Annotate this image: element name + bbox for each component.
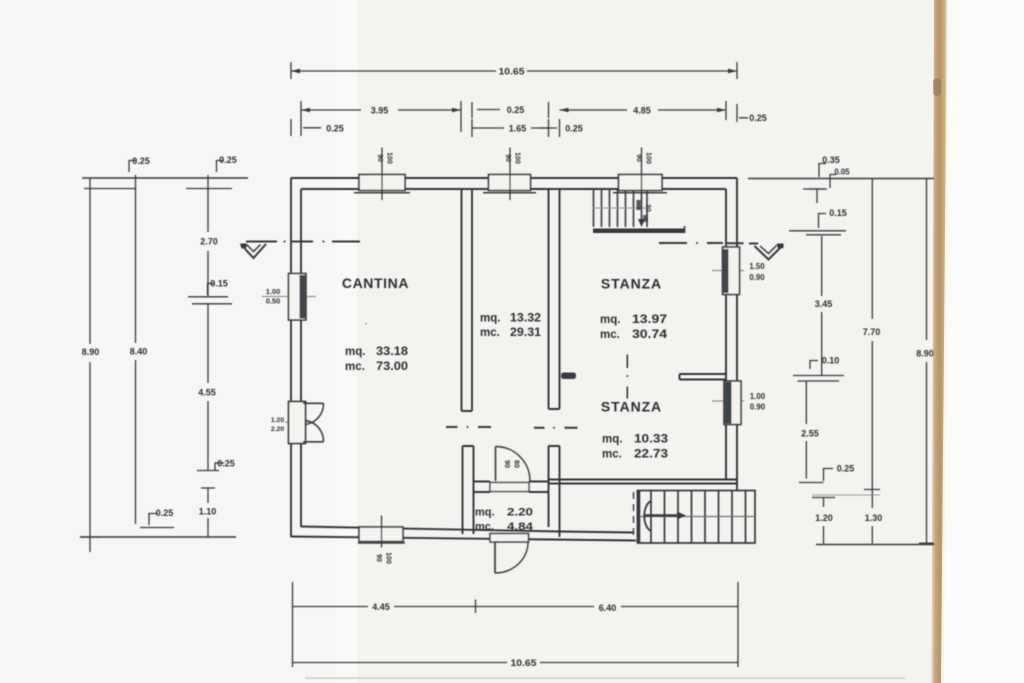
dim 2.70	[207, 189, 209, 297]
section line AA right	[659, 242, 758, 245]
hook 0.35	[819, 164, 826, 178]
dim 0.25 left leader	[291, 119, 321, 136]
ext inner bottom	[140, 514, 174, 528]
svg-text:10.65: 10.65	[511, 658, 537, 668]
window R1 (right wall)	[712, 270, 744, 272]
ticks 0.15	[188, 284, 232, 304]
partition wall W1 lower (bath left)	[463, 446, 474, 534]
svg-text:4.45: 4.45	[372, 602, 390, 612]
stair block left thick edge	[637, 491, 641, 544]
dim 0.25 mid leader	[472, 102, 500, 118]
page edge brown strip	[932, 0, 948, 683]
svg-text:13.32: 13.32	[510, 313, 541, 325]
ext line top right	[748, 178, 934, 180]
svg-text:0.25: 0.25	[217, 459, 235, 469]
paper speck	[365, 323, 367, 325]
svg-text:7.70: 7.70	[863, 327, 881, 337]
stair arrow start arc	[644, 501, 651, 531]
exterior door arc	[495, 543, 528, 574]
bath door leaf	[495, 447, 497, 482]
ext line bottom	[80, 536, 236, 538]
dim 8.90 right	[919, 179, 934, 544]
ext inner right	[803, 188, 827, 190]
svg-text:10.65: 10.65	[499, 67, 525, 77]
stair midline	[640, 516, 755, 518]
wall top outer	[291, 177, 737, 179]
svg-text:1.00: 1.00	[266, 287, 280, 296]
svg-text:1.65: 1.65	[509, 124, 527, 134]
svg-text:0.25: 0.25	[749, 113, 767, 123]
svg-text:mq.: mq.	[480, 313, 500, 325]
dim 8.90 left	[80, 178, 100, 552]
ext line bottom right	[816, 544, 934, 546]
stair treads upper	[594, 190, 648, 227]
svg-text:STANZA: STANZA	[601, 399, 662, 415]
mini tick	[809, 189, 825, 204]
stair block outline	[638, 491, 756, 544]
wall left outer	[290, 178, 292, 537]
dashed landing line	[633, 492, 635, 540]
svg-text:0.15: 0.15	[210, 279, 228, 289]
dim 8.40	[135, 189, 137, 525]
centerline between stanza	[626, 355, 628, 399]
section arrow left	[241, 244, 266, 258]
svg-text:90: 90	[504, 154, 511, 162]
svg-text:100: 100	[514, 152, 521, 164]
svg-text:0.25: 0.25	[565, 124, 583, 134]
svg-text:1.00: 1.00	[750, 392, 766, 401]
svg-text:73.00: 73.00	[376, 361, 408, 373]
svg-text:mq.: mq.	[475, 507, 495, 519]
faint scanner line at bottom	[305, 677, 905, 679]
svg-text:13.97: 13.97	[632, 314, 667, 326]
svg-text:mc.: mc.	[345, 361, 365, 373]
darker smudge on strip	[933, 78, 941, 96]
svg-text:2.55: 2.55	[801, 429, 819, 439]
svg-text:100: 100	[385, 552, 392, 564]
svg-text:29.31: 29.31	[510, 327, 542, 339]
svg-text:1.10: 1.10	[199, 507, 217, 517]
svg-text:1.30: 1.30	[865, 513, 883, 523]
svg-text:30.74: 30.74	[632, 329, 668, 341]
stair treads lower	[651, 491, 746, 544]
wall bottom inner corridor	[560, 532, 635, 533]
wall right inner	[725, 189, 727, 480]
svg-text:2.20: 2.20	[271, 426, 284, 433]
ticks top pair	[789, 231, 846, 235]
svg-text:0.05: 0.05	[834, 168, 850, 177]
svg-text:mq.: mq.	[345, 346, 365, 358]
partition wall W2 upper	[549, 189, 560, 409]
dim 7.70 / 1.30	[864, 179, 880, 544]
svg-text:mc.: mc.	[600, 329, 620, 341]
bath door wall jambs	[474, 482, 549, 493]
hook 0.25 mid	[215, 463, 224, 470]
svg-text:mc.: mc.	[480, 327, 500, 339]
stair down arrow	[641, 193, 643, 221]
svg-text:0.25: 0.25	[326, 124, 344, 134]
svg-text:0.90: 0.90	[749, 273, 765, 282]
svg-text:mq.: mq.	[602, 434, 622, 446]
svg-text:90: 90	[375, 554, 382, 562]
section line BB	[446, 426, 578, 429]
svg-text:8.90: 8.90	[916, 349, 934, 359]
dim 2.55	[799, 381, 824, 483]
svg-text:0.25: 0.25	[132, 156, 150, 166]
dim 4.55	[197, 304, 219, 471]
ticks mid pair	[793, 376, 844, 382]
exterior door leaf	[494, 543, 496, 574]
hook 0.05	[830, 175, 836, 189]
svg-text:STANZA: STANZA	[601, 276, 662, 292]
svg-text:0.10: 0.10	[822, 356, 840, 366]
bath door threshold	[490, 483, 529, 492]
wall right outer	[736, 178, 738, 490]
ext line top	[82, 177, 248, 179]
svg-text:100: 100	[645, 152, 652, 164]
dim 4.85	[560, 101, 727, 120]
svg-text:8.40: 8.40	[130, 347, 148, 357]
ext line inner top	[84, 188, 232, 190]
svg-text:2.20: 2.20	[507, 507, 533, 519]
svg-text:90: 90	[635, 154, 642, 162]
svg-text:0.25: 0.25	[507, 105, 525, 115]
svg-text:0.25: 0.25	[837, 464, 855, 474]
partition wall W1 upper	[462, 189, 473, 411]
svg-text:0.25: 0.25	[219, 155, 237, 165]
svg-text:90: 90	[376, 154, 383, 162]
svg-text:3.95: 3.95	[371, 106, 389, 116]
dim 3.95	[301, 101, 461, 132]
section arrow right	[755, 245, 784, 260]
wall bottom inner left	[301, 527, 560, 532]
hook 0.25 top-b	[129, 161, 136, 191]
dim 4.45 / 6.40	[293, 582, 739, 667]
section line AA left	[246, 241, 360, 243]
svg-text:4.55: 4.55	[198, 388, 216, 398]
stanza partition stub	[680, 374, 727, 380]
svg-text:4.84: 4.84	[507, 521, 534, 533]
partition wall W2 lower (bath right)	[549, 446, 560, 537]
svg-text:mc.: mc.	[602, 449, 622, 461]
dim 1.20	[812, 498, 835, 544]
window L1 (left wall)	[262, 296, 316, 298]
dim 0.25 mid-right leader	[541, 102, 560, 137]
dim 1.10	[201, 488, 215, 537]
stair landing edge	[593, 229, 684, 234]
svg-text:0.35: 0.35	[822, 155, 840, 165]
door frame mark right of W2	[561, 373, 576, 380]
svg-text:2.70: 2.70	[200, 237, 218, 247]
pale band at fold	[337, 0, 357, 683]
stair faint midline	[593, 207, 647, 209]
wall bottom outer	[291, 537, 636, 541]
dim 10.65 top	[291, 62, 737, 79]
landing end tick	[684, 226, 686, 233]
wall stanza bottom	[549, 480, 737, 484]
window R2 (right wall)	[712, 400, 744, 402]
svg-text:80: 80	[513, 460, 520, 468]
dim 10.65 bottom	[293, 662, 739, 664]
svg-text:0.90: 0.90	[750, 403, 766, 412]
stair direction arrow	[645, 514, 678, 516]
svg-text:4.85: 4.85	[633, 106, 651, 116]
faint line	[812, 494, 880, 496]
dim 0.25 far right leader	[737, 104, 748, 122]
window T3 (top wall)	[619, 175, 663, 191]
hook 0.25 top-c	[208, 161, 223, 191]
svg-text:0.25: 0.25	[156, 508, 174, 518]
bath door arc	[496, 447, 531, 482]
white area right of strip	[944, 0, 1024, 683]
hook 0.25 right	[824, 469, 834, 482]
window T1 (top wall)	[359, 175, 405, 191]
hook 0.10	[810, 361, 818, 370]
svg-text:3.45: 3.45	[815, 299, 833, 309]
dim 3.45	[821, 236, 823, 375]
svg-text:8.90: 8.90	[82, 347, 100, 357]
svg-text:6.40: 6.40	[599, 603, 617, 613]
svg-text:30: 30	[644, 204, 651, 212]
lighter left paper band	[0, 0, 337, 683]
svg-text:1.20: 1.20	[815, 513, 833, 523]
wall left inner	[300, 189, 302, 527]
svg-text:10.33: 10.33	[634, 434, 668, 446]
hook 0.15	[819, 214, 827, 229]
svg-text:CANTINA: CANTINA	[342, 275, 409, 291]
svg-text:1.20: 1.20	[271, 417, 284, 424]
svg-text:1.50: 1.50	[749, 262, 765, 271]
svg-text:90: 90	[503, 460, 510, 468]
wall top inner	[301, 188, 726, 190]
window T2 (top wall)	[489, 175, 531, 191]
svg-text:mq.: mq.	[600, 314, 620, 326]
exterior door threshold	[490, 534, 529, 543]
dim 1.65	[472, 119, 549, 137]
svg-text:0.15: 0.15	[829, 208, 847, 218]
svg-text:22.73: 22.73	[634, 449, 668, 461]
svg-text:100: 100	[386, 152, 393, 164]
svg-text:33.18: 33.18	[376, 346, 409, 358]
window B1 (bottom wall)	[359, 527, 403, 542]
door L (double door left wall)	[285, 421, 313, 423]
svg-text:mc.: mc.	[475, 521, 494, 533]
svg-text:0.50: 0.50	[266, 297, 280, 306]
